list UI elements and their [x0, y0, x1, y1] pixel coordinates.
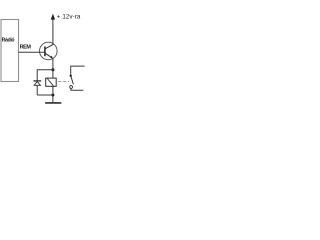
diode D1 [33, 81, 41, 85]
relay coil K1 [46, 78, 57, 86]
emitter rail wire [52, 58, 54, 78]
collector rail wire [52, 19, 54, 45]
contact terminal circle [70, 86, 73, 89]
node junction top [51, 68, 54, 71]
ground [45, 102, 61, 104]
relay contact bottom wire [71, 89, 83, 91]
node junction bottom [51, 94, 54, 97]
wire to diode top [37, 70, 53, 81]
transistor Q1 [40, 42, 58, 60]
wire REM to base [19, 51, 45, 53]
contact fixed dot [70, 75, 72, 77]
svg-text:REM: REM [20, 44, 32, 50]
diode bottom lead [36, 86, 38, 95]
relay contact top wire [71, 66, 85, 75]
+12V supply arrow [51, 14, 55, 20]
mechanical link dashes [58, 81, 69, 83]
wire diode bottom to node [37, 94, 53, 96]
contact arm [71, 76, 74, 84]
coil bottom wire [52, 86, 54, 102]
radio unit box [1, 20, 19, 82]
svg-text:+ 12v-ra: + 12v-ra [57, 13, 81, 20]
svg-text:Rádió: Rádió [2, 37, 15, 43]
